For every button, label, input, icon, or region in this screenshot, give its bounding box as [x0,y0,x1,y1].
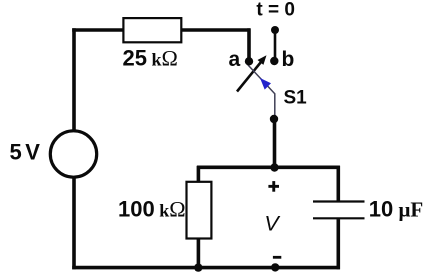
svg-text:5V: 5V [10,140,41,165]
svg-text:25 kΩ: 25 kΩ [123,45,178,70]
switch S1 blade arrowhead [258,55,267,65]
svg-text:b: b [282,48,295,71]
wire: drop from top wire down to node a [247,28,251,61]
capacitor C1 bottom plate [313,217,365,219]
resistor R2 body (100 kΩ) [187,182,212,239]
wire: right vertical, capacitor bottom lead [336,219,340,269]
wire: left vertical (source branch) [72,28,76,269]
switch S1 wiper thin line to bottom terminal [248,65,275,118]
svg-text:100 kΩ: 100 kΩ [118,197,186,222]
svg-text:S1: S1 [284,88,308,109]
wire: drop to R2 top [197,166,201,183]
bottom rail junction dot (V-) [271,263,279,271]
wire: top horizontal from source to node a corner [72,28,250,32]
t=0 top terminal dot [271,26,279,34]
label - (capacitor polarity) [273,256,281,259]
wire: bottom horizontal rail [72,266,340,270]
bottom rail junction dot (R2) [194,263,202,271]
node b junction dot [270,57,278,65]
wire: t=0 stub between top terminal and node b [274,30,277,61]
middle junction dot [270,163,278,171]
node a junction dot [245,57,253,65]
wire: right vertical, capacitor top lead [336,166,340,201]
svg-text:10 μF: 10 μF [369,197,423,222]
wire: R2 bottom to bottom rail [197,238,201,269]
svg-text:t = 0: t = 0 [256,0,295,21]
switch S1 blue motion arrowhead [260,78,271,90]
voltage source V1 circle [50,131,96,177]
wire: switch bottom vertical to middle junction [273,119,277,168]
switch bottom terminal dot [270,115,278,123]
capacitor C1 top plate [313,200,365,202]
wire: middle horizontal (R2 / C branch) [197,166,340,170]
switch S1 blade [237,62,261,92]
svg-text:a: a [229,48,241,71]
svg-text:V: V [264,212,281,236]
label + (capacitor polarity) [268,185,279,188]
resistor R1 body (25 kΩ) [123,18,181,42]
